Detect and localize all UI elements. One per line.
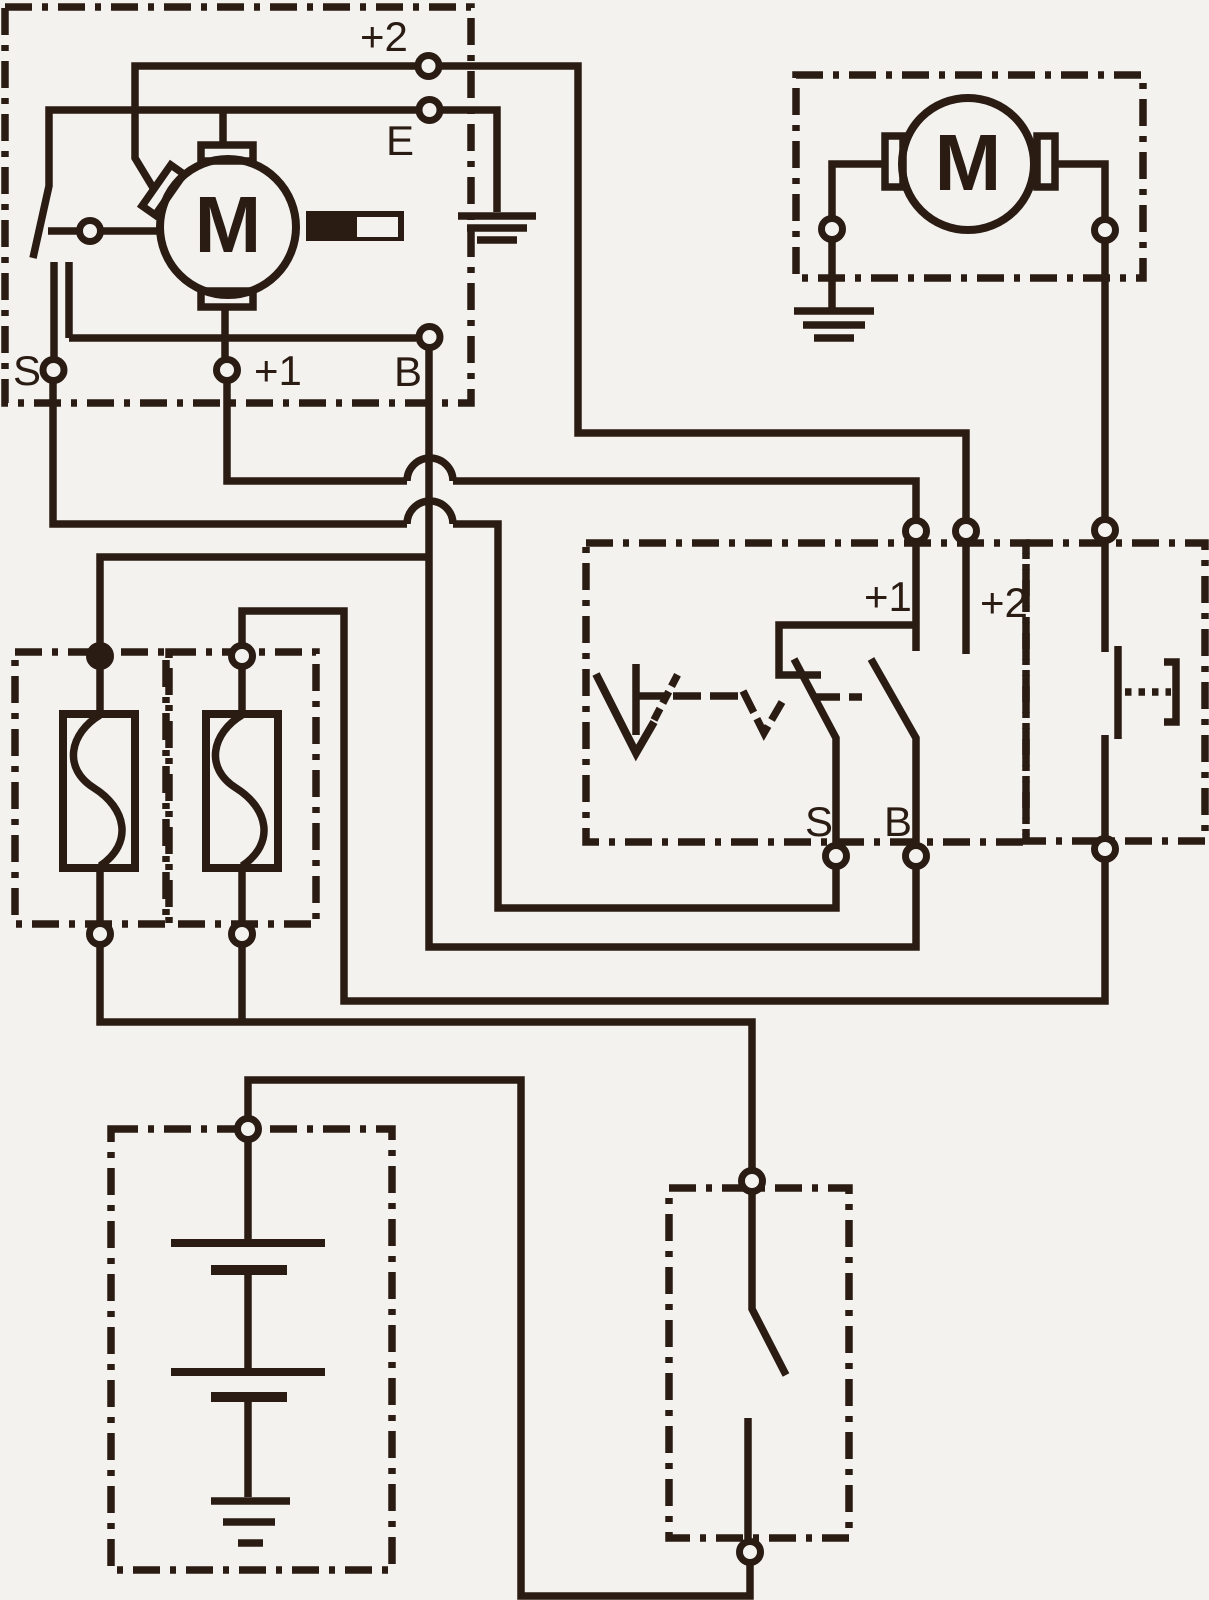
fuse 1 top terminal (junction)	[90, 646, 111, 667]
washer motor enclosure (dash-dot box)	[796, 75, 1143, 278]
hop over B wire (S)	[407, 501, 453, 524]
battery cell 1 long plate	[171, 1239, 325, 1247]
washer switch enclosure (dash-dot box)	[1026, 543, 1205, 841]
wire motor left to contact	[48, 227, 157, 235]
wire E terminal to ground	[443, 110, 497, 212]
ground (washer motor)	[794, 311, 874, 338]
park switch contact S stub	[50, 262, 58, 357]
wiper switch OFF contact	[632, 664, 640, 735]
park switch contact B stub and B wire	[69, 262, 416, 338]
wiper switch +2 stub	[962, 544, 970, 654]
wire E line with park switch arm	[33, 110, 416, 258]
contact circle	[80, 221, 101, 242]
battery cell 1 short plate	[211, 1265, 287, 1275]
svg-text:S: S	[13, 347, 41, 394]
linkage horizontal dashes 1	[636, 692, 740, 700]
battery enclosure (dash-dot box)	[111, 1129, 392, 1570]
washer motor left terminal	[822, 219, 843, 240]
wiper motor unit enclosure (dash-dot box)	[5, 7, 471, 403]
fuse 1 body	[63, 714, 135, 868]
wire branch to fuse 1	[100, 557, 429, 643]
battery cell 2 long plate	[171, 1368, 325, 1376]
fuse 2 body	[206, 714, 278, 868]
motor M1 top brush	[201, 145, 253, 161]
svg-text:+2: +2	[360, 13, 408, 60]
fuse 2 top terminal	[232, 646, 253, 667]
ground (battery)	[211, 1501, 290, 1543]
fuse 1 element	[73, 715, 122, 866]
svg-text:+2: +2	[980, 579, 1028, 626]
terminal B	[419, 327, 440, 348]
svg-text:+1: +1	[864, 573, 912, 620]
svg-text:M: M	[195, 180, 262, 269]
ignition switch bottom terminal	[740, 1542, 761, 1563]
battery internal wires	[244, 1142, 252, 1497]
washer switch dotted link	[1125, 688, 1171, 696]
washer switch stubs	[1101, 543, 1109, 836]
wiper switch B arm	[871, 659, 916, 843]
wiper motor M1	[160, 159, 296, 295]
ignition switch top terminal	[742, 1171, 763, 1192]
svg-text:E: E	[386, 117, 414, 164]
wire B terminal down with branch to fuse and to switch B	[429, 350, 916, 947]
ignition switch enclosure (dash-dot box)	[669, 1188, 849, 1538]
svg-text:B: B	[884, 798, 912, 845]
wiper switch +1 conductor	[779, 544, 916, 675]
fuse 2 enclosure (dash-dot box)	[169, 652, 316, 924]
wire fuse bottoms to ignition switch	[100, 947, 752, 1168]
fuse 2 wires	[238, 669, 246, 921]
svg-text:B: B	[394, 348, 422, 395]
motor M2 left brush	[885, 136, 903, 187]
fuse 2 element	[215, 715, 264, 866]
wiper switch V arm	[596, 674, 654, 753]
terminal S	[43, 360, 64, 381]
washer motor M2	[902, 98, 1034, 230]
wire S terminal to wiper switch S (with hop)	[53, 383, 836, 908]
terminal +2	[418, 56, 439, 77]
fuse 1 wires	[96, 669, 104, 921]
wiper switch S arm	[794, 659, 836, 843]
wiper switch terminal B	[906, 846, 927, 867]
ground (E)	[458, 216, 536, 240]
terminal +1	[217, 360, 238, 381]
wire +2 terminal to wiper switch +2	[442, 66, 966, 518]
wiper switch enclosure (dash-dot box)	[586, 543, 1026, 842]
battery top terminal	[238, 1119, 259, 1140]
ignition switch arm	[752, 1194, 786, 1375]
fuse 1 enclosure (dash-dot box)	[15, 652, 166, 924]
washer switch top terminal	[1095, 520, 1116, 541]
wiper switch terminal +1	[906, 521, 927, 542]
svg-text:+1: +1	[254, 347, 302, 394]
linkage diagonal dashes	[654, 670, 680, 720]
washer switch bracket	[1164, 662, 1176, 722]
motor M2 right brush	[1037, 136, 1055, 187]
linkage dip	[743, 691, 782, 733]
wire motor bottom to +1 terminal	[221, 307, 229, 357]
washer switch button bar	[1114, 646, 1122, 739]
terminal E	[419, 100, 440, 121]
wiper switch terminal +2	[956, 521, 977, 542]
svg-text:S: S	[805, 798, 833, 845]
hop over B wire (+1)	[407, 458, 453, 481]
ignition switch lower stub	[744, 1418, 752, 1539]
linkage horizontal dashes 2	[812, 693, 862, 701]
wiper switch terminal S	[826, 846, 847, 867]
svg-text:M: M	[935, 118, 1002, 207]
thermal protector	[306, 211, 404, 241]
wire +2 left to motor brush	[135, 66, 415, 191]
washer motor right terminal	[1095, 220, 1116, 241]
motor M1 angled brush	[142, 165, 184, 215]
battery feed wire to ignition switch bottom	[248, 1080, 750, 1596]
fuse 2 bottom terminal	[232, 924, 253, 945]
fuse 1 bottom terminal	[90, 924, 111, 945]
wire +1 terminal to wiper switch (with hop)	[227, 383, 916, 518]
wire motor top brush to E line	[219, 110, 227, 146]
battery cell 2 short plate	[211, 1392, 287, 1402]
washer motor left wire to ground	[832, 164, 885, 308]
motor M1 bottom brush	[201, 291, 253, 307]
washer switch bottom terminal	[1095, 839, 1116, 860]
washer motor right wire down to washer switch	[1055, 164, 1105, 517]
wire fuse 2 to washer motor	[242, 611, 1105, 1001]
